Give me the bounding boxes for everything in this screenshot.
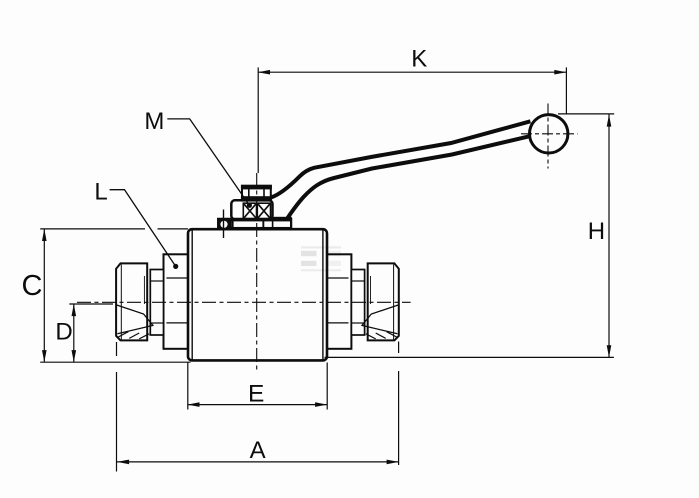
stem housing — [231, 200, 272, 219]
left mid hex section — [150, 270, 163, 336]
flange plate — [217, 218, 292, 228]
dimension H — [325, 114, 615, 358]
left plug chamfer facet line — [120, 265, 122, 340]
horizontal centerline — [77, 301, 411, 303]
handle arm — [271, 121, 534, 219]
svg-text:H: H — [588, 218, 605, 245]
svg-text:C: C — [22, 270, 43, 302]
dimension E — [187, 363, 327, 410]
right plug internal cone — [361, 276, 398, 334]
svg-text:K: K — [411, 46, 427, 73]
vertical centerline — [256, 173, 258, 371]
left plug thread hatch — [117, 332, 149, 339]
right plug chamfer facet line — [393, 265, 395, 340]
ball crosshair vertical — [547, 104, 549, 169]
right gland nut — [327, 254, 352, 348]
packing X box left — [243, 203, 256, 219]
left gland nut — [164, 254, 189, 348]
right plug thread hatch — [366, 332, 398, 339]
svg-text:E: E — [248, 380, 264, 407]
dimension C — [40, 229, 190, 362]
svg-text:L: L — [94, 179, 107, 206]
ball crosshair horizontal — [521, 133, 578, 135]
dimension K — [258, 67, 567, 173]
svg-text:A: A — [250, 437, 266, 464]
svg-text:M: M — [144, 108, 164, 135]
handle foot — [273, 217, 292, 222]
left plug internal cone — [116, 276, 153, 334]
dimension A — [117, 342, 399, 472]
body cap joint lines — [191, 230, 193, 361]
right plug — [368, 263, 399, 340]
left plug — [116, 263, 147, 340]
handle ball — [530, 115, 568, 153]
svg-text:D: D — [55, 319, 72, 346]
packing X box right — [257, 203, 270, 219]
stem nut M — [241, 185, 272, 201]
stop pin line — [223, 210, 225, 239]
watermark — [301, 246, 341, 271]
right mid hex section — [351, 270, 364, 336]
dimension D — [69, 304, 113, 362]
valve body — [188, 229, 327, 360]
